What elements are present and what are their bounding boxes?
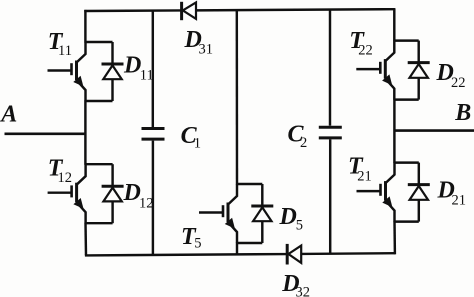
svg-text:22: 22 — [358, 42, 373, 58]
svg-text:B: B — [454, 100, 471, 126]
wire terminal A lead — [5, 133, 87, 136]
wire C2 top lead — [329, 9, 331, 126]
wire T5 collector loop top — [237, 183, 262, 185]
diode D21 — [408, 163, 430, 222]
wire top DC rail left section — [84, 9, 181, 12]
IGBT T11 — [48, 42, 86, 101]
wire T21 collector loop top — [395, 161, 419, 163]
wire bottom rail right section — [301, 252, 395, 255]
wire T12 collector loop top — [86, 163, 113, 165]
wire T5 emitter loop bottom — [237, 242, 262, 244]
svg-text:5: 5 — [194, 236, 201, 252]
svg-text:12: 12 — [58, 170, 73, 186]
svg-text:D: D — [279, 204, 297, 230]
svg-text:2: 2 — [300, 135, 307, 151]
wire T12 emitter loop bottom — [86, 222, 113, 224]
wire T21 emitter loop bottom — [395, 220, 419, 222]
capacitor C2 — [319, 127, 342, 138]
wire right bus upper — [393, 8, 395, 41]
svg-text:D: D — [123, 53, 141, 79]
IGBT T5 — [199, 184, 237, 243]
svg-text:32: 32 — [296, 285, 311, 297]
wire left bus upper — [84, 10, 86, 43]
wire top DC rail right section — [196, 9, 395, 10]
wire right bus middle (node B junction) — [393, 99, 395, 163]
svg-text:A: A — [0, 102, 17, 128]
capacitor C1 — [142, 129, 165, 140]
svg-text:21: 21 — [357, 169, 372, 185]
wire left bus middle (node A junction) — [84, 101, 86, 165]
svg-text:31: 31 — [199, 42, 214, 58]
diode D12 — [102, 164, 124, 223]
diode D11 — [102, 42, 124, 101]
svg-text:11: 11 — [140, 68, 154, 84]
diode D31 — [182, 2, 196, 20]
svg-text:12: 12 — [139, 195, 154, 211]
wire C1 bottom lead — [152, 141, 154, 256]
diode D22 — [408, 41, 430, 100]
wire T22 collector loop top — [394, 39, 418, 41]
wire T11 emitter loop bottom — [86, 100, 113, 102]
wire T5 collector riser from top rail — [236, 9, 239, 184]
svg-text:5: 5 — [296, 218, 303, 234]
wire T22 emitter loop bottom — [394, 98, 418, 100]
svg-text:21: 21 — [452, 193, 467, 209]
wire bottom rail left section — [85, 254, 287, 255]
wire left bus lower — [84, 223, 87, 256]
wire T5 emitter to bottom rail — [236, 243, 238, 256]
svg-text:1: 1 — [194, 136, 201, 152]
wire C1 top lead — [152, 10, 154, 127]
IGBT T22 — [356, 41, 394, 100]
diode D5 — [251, 184, 273, 243]
diode D32 — [287, 244, 301, 265]
wire terminal B lead — [394, 129, 474, 132]
wire right bus lower — [393, 221, 396, 254]
wire C2 bottom lead — [329, 139, 331, 253]
IGBT T21 — [357, 163, 395, 222]
svg-text:11: 11 — [58, 43, 72, 59]
IGBT T12 — [48, 164, 86, 223]
svg-text:22: 22 — [451, 75, 466, 91]
wire T11 collector loop top — [86, 41, 113, 43]
